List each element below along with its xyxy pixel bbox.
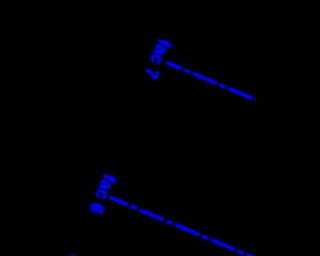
blurred halo pass xyxy=(71,36,259,256)
bright core pass xyxy=(71,36,259,256)
